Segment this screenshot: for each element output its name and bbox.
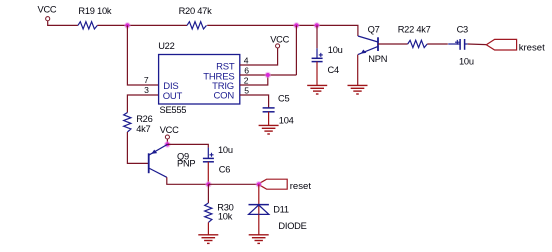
svg-text:4k7: 4k7	[136, 124, 150, 134]
wire Q9 collector down and right	[167, 177, 209, 184]
svg-text:VCC: VCC	[160, 125, 179, 135]
wire down to D11	[258, 184, 260, 214]
resistor R30 (vertical)	[205, 203, 234, 223]
power symbol VCC (at Q9)	[160, 125, 179, 139]
wire pin 3 OUT to left then down	[127, 95, 158, 113]
ground under D11	[249, 235, 269, 244]
resistor R26 (vertical)	[124, 113, 153, 134]
wire Q7 emitter down to ground	[357, 55, 359, 86]
wire pin 5 CON down to C5	[240, 95, 269, 108]
svg-text:OUT: OUT	[163, 91, 183, 102]
resistor R19	[78, 6, 112, 29]
node junction on top rail at x=296.4	[293, 22, 300, 29]
connector kreset	[486, 39, 545, 53]
svg-text:R26: R26	[136, 114, 152, 124]
wire top rail down to pin 7 DIS	[127, 25, 158, 85]
wire D11 to ground	[258, 214, 260, 234]
svg-text:C6: C6	[219, 164, 230, 174]
ground under C4	[307, 85, 327, 94]
svg-text:2: 2	[244, 75, 249, 85]
wire C4 to ground	[316, 62, 318, 86]
wire VCC stub down	[48, 21, 78, 26]
svg-text:10k: 10k	[218, 211, 233, 221]
svg-text:5: 5	[244, 86, 249, 96]
wire top rail down to C4	[316, 25, 318, 48]
svg-text:VCC: VCC	[270, 34, 289, 44]
svg-text:kreset: kreset	[519, 42, 545, 53]
svg-text:C4: C4	[328, 65, 339, 75]
wire R20 to Q7 collector corner	[207, 25, 358, 36]
svg-text:Q7: Q7	[368, 25, 380, 35]
wire pin 4 RST to VCC stub	[240, 48, 278, 65]
ground under Q7	[348, 85, 368, 94]
wire down to R30	[207, 184, 209, 203]
capacitor C3 10u polarized (horizontal)	[448, 25, 474, 67]
svg-text:PNP: PNP	[177, 159, 195, 169]
wire pin 6 THRES to riser	[240, 74, 297, 76]
capacitor C6 10u polarized	[203, 145, 233, 174]
wire riser x=296.4 up to top rail	[295, 25, 297, 75]
transistor Q9 PNP	[149, 144, 196, 177]
resistor R22	[398, 24, 431, 47]
wire VCC down to junction	[166, 139, 168, 144]
wire C3 to kreset	[468, 43, 487, 46]
svg-text:R20 47k: R20 47k	[179, 6, 212, 16]
wire R22 to C3	[427, 43, 448, 45]
power symbol VCC (net VCC, top-left)	[38, 5, 57, 21]
capacitor C5 104	[263, 93, 294, 125]
connector reset	[258, 179, 311, 192]
svg-text:104: 104	[279, 116, 294, 126]
diode D11	[249, 205, 307, 231]
node junction C6/R30	[205, 181, 212, 188]
svg-text:R22 4k7: R22 4k7	[398, 24, 431, 34]
svg-text:NPN: NPN	[368, 54, 387, 64]
wire R26 down to Q9 base	[127, 132, 148, 163]
ground under C5	[259, 125, 279, 134]
svg-text:C5: C5	[278, 93, 289, 103]
svg-text:4: 4	[244, 55, 249, 65]
svg-text:10u: 10u	[218, 145, 233, 155]
wire R19 to R20	[97, 24, 187, 26]
power symbol VCC (above pin 4)	[270, 34, 289, 48]
svg-text:CON: CON	[213, 90, 234, 101]
svg-text:D11: D11	[273, 205, 289, 215]
node junction on top rail at x=316.8	[314, 22, 321, 29]
svg-text:3: 3	[144, 85, 149, 95]
svg-text:6: 6	[244, 66, 249, 76]
transistor Q7	[358, 25, 387, 64]
capacitor C4 10u polarized	[312, 45, 343, 75]
svg-text:10u: 10u	[459, 56, 474, 66]
wire C5 to ground	[268, 112, 270, 125]
wire pin 2 TRIG up to THRES	[240, 75, 268, 85]
ground under R30	[198, 235, 218, 244]
svg-text:R19 10k: R19 10k	[78, 6, 111, 16]
svg-text:VCC: VCC	[38, 5, 57, 15]
wire C6 down to net	[207, 162, 209, 185]
wire R30 to ground	[207, 222, 209, 234]
svg-text:7: 7	[144, 75, 149, 85]
svg-text:10u: 10u	[328, 45, 343, 55]
wire to reset tip	[208, 183, 259, 185]
node junction VCC/emitter/C6	[164, 141, 171, 148]
wire Q7 base to R22	[378, 43, 408, 45]
svg-text:DIODE: DIODE	[278, 221, 306, 231]
svg-text:U22: U22	[158, 41, 174, 51]
svg-text:SE555: SE555	[160, 105, 187, 115]
node junction THRES/TRIG	[265, 72, 272, 79]
node junction on top rail at x=127.4	[124, 22, 131, 29]
wire junction to C6	[167, 144, 208, 147]
svg-text:reset: reset	[290, 181, 312, 192]
op-amp U22 body (SE555 timer)	[158, 41, 240, 115]
svg-text:C3: C3	[457, 25, 468, 35]
resistor R20	[179, 6, 212, 29]
node junction reset/D11	[255, 181, 262, 188]
